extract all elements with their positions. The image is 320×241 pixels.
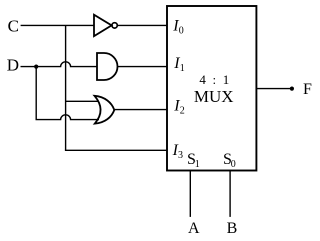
wire AND gate output to I1 (118, 66, 168, 68)
wire D to AND gate input with hop over vertical wire (21, 62, 98, 67)
svg-text:MUX: MUX (194, 87, 234, 106)
AND gate U2 (97, 53, 118, 80)
OR gate U3 (95, 96, 115, 124)
svg-text:C: C (8, 17, 19, 36)
NOT gate U1 triangle (94, 15, 112, 36)
svg-text:0: 0 (231, 159, 236, 170)
svg-text:3: 3 (178, 150, 183, 161)
svg-text:0: 0 (179, 26, 184, 37)
wire branch to OR gate upper input (66, 100, 99, 102)
svg-text:4 : 1: 4 : 1 (199, 72, 231, 87)
wire select S0 down (229, 171, 231, 217)
svg-text:F: F (303, 81, 312, 98)
junction dot on D wire (34, 65, 38, 69)
wire select S1 down (189, 171, 191, 217)
node F dot (290, 87, 294, 91)
wire NOT gate output to I0 (117, 24, 167, 26)
NOT gate U1 inversion bubble (112, 23, 117, 28)
MUX U4 4:1 box (167, 6, 256, 171)
svg-text:D: D (7, 56, 19, 75)
svg-text:1: 1 (195, 159, 200, 170)
wire OR gate output to I2 (114, 109, 167, 111)
wire C to NOT gate input (21, 24, 94, 26)
wire MUX output to F (256, 88, 292, 90)
svg-text:1: 1 (180, 63, 185, 74)
svg-text:2: 2 (180, 106, 185, 117)
wire vertical branch from C wire down to I3 elbow (65, 25, 67, 150)
wire I3 horizontal from elbow to MUX (65, 149, 167, 151)
svg-text:B: B (227, 220, 238, 237)
wire D branch down and right to OR gate lower input with hop (36, 67, 99, 120)
svg-text:A: A (188, 220, 200, 237)
